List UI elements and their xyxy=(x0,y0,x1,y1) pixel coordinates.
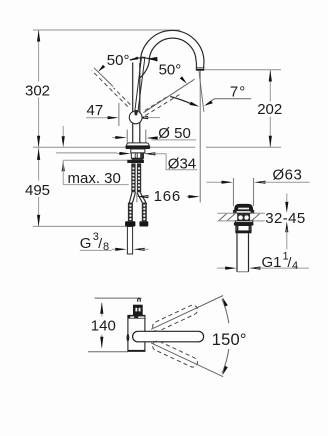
dashed lever position left xyxy=(92,71,131,107)
svg-text:47: 47 xyxy=(87,102,104,119)
lever (up position) xyxy=(135,57,145,110)
dimension diameter 34 xyxy=(117,152,198,172)
faucet body (top view) xyxy=(128,315,146,351)
drain knurled nut xyxy=(236,226,251,231)
drain collar xyxy=(234,221,254,226)
drain nut bottom band xyxy=(235,231,251,233)
water stream vertical line / 166 extension xyxy=(199,71,201,203)
svg-text:8: 8 xyxy=(103,241,109,253)
label G 3/8 xyxy=(80,231,149,253)
lever tip hook (top view) xyxy=(138,298,141,301)
lever base inside pivot xyxy=(134,111,138,115)
lever tilt arc over lever top xyxy=(130,57,158,62)
dimension diameter 50 xyxy=(112,125,196,142)
dimension G1 1/4 xyxy=(217,251,309,273)
through-deck shank xyxy=(131,149,145,153)
swivel arc 150 xyxy=(222,297,229,375)
top reference line (spout apex level) xyxy=(33,29,180,31)
dashed spout position upper xyxy=(151,304,199,333)
label 7 degrees xyxy=(204,83,251,106)
dimension 166 xyxy=(137,188,200,205)
svg-text:166: 166 xyxy=(154,188,181,205)
deck level extension line (202 bottom) xyxy=(206,146,281,148)
label 50 degrees right xyxy=(159,62,187,84)
svg-text:Ø34: Ø34 xyxy=(168,155,196,172)
svg-text:max. 30: max. 30 xyxy=(68,170,121,187)
diameter 63 extension lines xyxy=(232,178,234,206)
hose transition curves xyxy=(129,192,145,202)
dimension 302 xyxy=(25,30,50,147)
lever knob (top view) xyxy=(133,305,143,316)
dashed spout position lower xyxy=(151,339,199,368)
tilted lever ray right xyxy=(144,79,195,113)
dimension max. 30 xyxy=(62,126,129,187)
dimension 495 xyxy=(25,148,50,226)
drain pipe xyxy=(237,233,249,271)
svg-text:Ø 50: Ø 50 xyxy=(158,125,191,142)
svg-text:/: / xyxy=(98,235,102,251)
faucet body column xyxy=(133,63,140,143)
centerline segment xyxy=(136,194,138,203)
bottom extension line (body bottom level) xyxy=(88,351,128,353)
hose end nuts xyxy=(125,221,135,226)
deck top line xyxy=(33,146,195,148)
svg-text:50°: 50° xyxy=(107,52,130,69)
dashed lever position right xyxy=(145,94,181,116)
upper braided hoses xyxy=(131,163,141,192)
svg-text:302: 302 xyxy=(25,82,50,99)
spout underside curve into body xyxy=(140,62,149,78)
swivel rays xyxy=(151,296,223,330)
svg-text:50°: 50° xyxy=(159,62,182,79)
svg-text:495: 495 xyxy=(25,182,50,199)
svg-text:202: 202 xyxy=(257,101,282,118)
spout axis bump (top view) xyxy=(127,334,130,342)
deck band (right view) xyxy=(218,213,265,221)
hose-end reference line xyxy=(33,225,127,227)
svg-text:Ø63: Ø63 xyxy=(273,166,303,183)
spout tip / aerator xyxy=(196,62,204,71)
tilt arc lower right segment with arrow xyxy=(170,97,199,107)
drain flange xyxy=(234,211,254,214)
svg-text:G: G xyxy=(80,235,92,252)
svg-text:4: 4 xyxy=(292,260,298,272)
tilted lever ray left xyxy=(94,68,113,87)
spout outer arc xyxy=(140,30,204,63)
G 3/8 connection tube xyxy=(127,227,132,255)
top extension line (lever tip level) xyxy=(95,297,142,299)
pivot circle xyxy=(129,111,142,124)
lower braided hoses xyxy=(128,203,147,222)
hose coupling dark band xyxy=(127,160,144,163)
label 50 degrees left xyxy=(98,52,129,72)
mounting nut xyxy=(131,153,143,160)
deck bottom line xyxy=(56,152,117,154)
drain dome cap xyxy=(235,204,253,210)
dimension 47 xyxy=(86,102,160,126)
dimension 32-45 xyxy=(285,194,288,250)
dimension diameter 63 xyxy=(207,166,310,184)
svg-text:7°: 7° xyxy=(230,83,246,100)
dimension 140 xyxy=(91,302,116,348)
svg-text:G1: G1 xyxy=(262,254,282,271)
drain body in deck (threaded, with overflow holes) xyxy=(237,213,250,221)
spout (top view, solid) xyxy=(133,331,204,342)
water stream 7 degree line xyxy=(199,71,204,112)
svg-text:140: 140 xyxy=(91,318,116,335)
spout inner arc xyxy=(149,38,196,61)
dimension 202 xyxy=(257,70,282,147)
faucet base escutcheon xyxy=(126,143,150,149)
svg-text:32-45: 32-45 xyxy=(265,210,305,227)
svg-text:/: / xyxy=(288,254,292,270)
svg-text:150°: 150° xyxy=(212,331,247,349)
hatching xyxy=(219,214,227,221)
spout tip extension line (202 top) xyxy=(205,69,282,71)
